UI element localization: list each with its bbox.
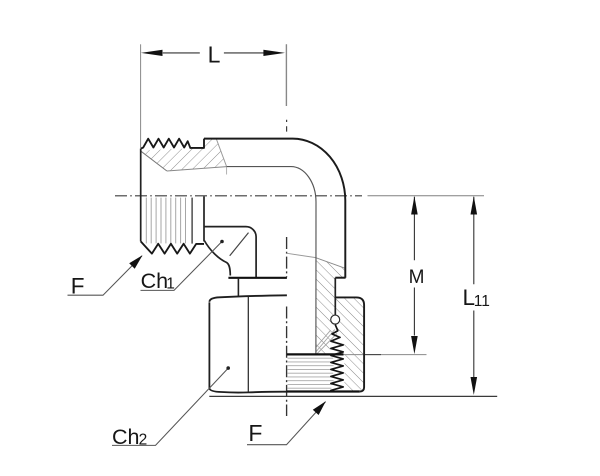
svg-text:L: L [208, 42, 221, 68]
svg-text:Ch: Ch [141, 269, 168, 293]
svg-text:1: 1 [166, 276, 175, 293]
svg-text:2: 2 [139, 431, 148, 448]
svg-text:M: M [409, 267, 425, 288]
svg-text:11: 11 [474, 293, 490, 310]
svg-text:F: F [248, 420, 262, 446]
svg-text:Ch: Ch [112, 425, 139, 449]
svg-text:F: F [71, 274, 85, 299]
